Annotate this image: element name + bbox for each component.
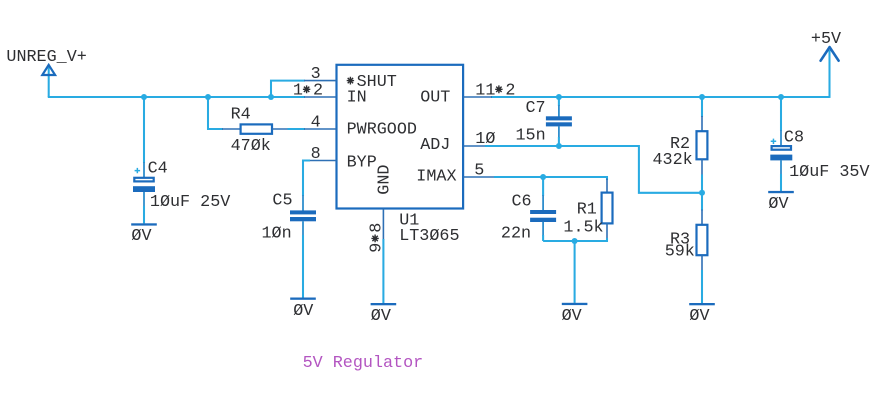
wire U1 GND to ground	[382, 239, 384, 303]
svg-text:+5V: +5V	[811, 30, 841, 49]
pin 11*2 OUT stub	[463, 82, 515, 101]
svg-text:ØV: ØV	[562, 307, 582, 326]
wire ADJ run	[485, 146, 702, 193]
capacitor C6	[501, 177, 556, 243]
svg-text:ØV: ØV	[131, 227, 151, 246]
capacitor C5	[262, 192, 317, 244]
node SHDN tie	[268, 94, 274, 100]
wire IMAX run	[494, 177, 607, 193]
wire SHDN loop	[271, 81, 305, 97]
svg-text:2: 2	[505, 82, 515, 101]
pin 4 PWRGOOD stub	[304, 113, 337, 132]
pin 10 ADJ stub	[463, 130, 495, 149]
power symbol +5V	[811, 30, 841, 61]
pin 3 SHUT stub	[304, 65, 337, 84]
resistor R4	[231, 106, 272, 157]
node C8 top	[778, 94, 784, 100]
svg-text:UNREG_V+: UNREG_V+	[6, 48, 86, 67]
title 5V Regulator	[303, 354, 424, 373]
pin 9*8 GND stub	[368, 209, 387, 253]
capacitor C8	[770, 129, 869, 182]
wire main top rail	[48, 65, 305, 97]
svg-text:GND: GND	[375, 165, 394, 195]
svg-text:OUT: OUT	[420, 88, 450, 107]
pin 8 BYP stub	[309, 145, 337, 164]
node IMAX C6 tap	[540, 174, 546, 180]
wire R2 bottom lead	[701, 159, 703, 193]
svg-text:R4: R4	[231, 106, 251, 125]
svg-text:C7: C7	[526, 99, 546, 118]
wire C8 top lead	[780, 97, 782, 146]
U1 reference label	[399, 212, 459, 246]
wire R4 drop	[208, 97, 241, 129]
pin 1*2 IN stub	[293, 82, 337, 101]
resistor R3	[665, 225, 708, 262]
resistor R2	[653, 131, 708, 170]
svg-text:1ØuF 35V: 1ØuF 35V	[789, 163, 869, 182]
svg-text:15n: 15n	[516, 126, 546, 145]
wire C4 to ground	[143, 192, 145, 223]
node R4 top	[205, 94, 211, 100]
node R2 top	[699, 94, 705, 100]
svg-text:ØV: ØV	[293, 302, 313, 321]
svg-text:R1: R1	[577, 200, 597, 219]
svg-text:2: 2	[313, 82, 323, 101]
svg-text:C4: C4	[148, 160, 168, 179]
wire C5 to ground	[302, 221, 304, 297]
wire C4 drop	[143, 97, 145, 177]
svg-text:ADJ: ADJ	[420, 136, 450, 155]
ground C5 0V	[290, 298, 316, 322]
svg-text:432k: 432k	[653, 151, 693, 170]
ground C6 0V	[562, 303, 588, 326]
svg-text:1: 1	[293, 82, 303, 101]
wire R3 to ground	[701, 255, 703, 304]
svg-text:IN: IN	[347, 88, 367, 107]
resistor R1	[563, 193, 612, 238]
ground U1 0V	[371, 303, 397, 326]
svg-text:ØV: ØV	[689, 307, 709, 326]
svg-text:1ØuF 25V: 1ØuF 25V	[150, 193, 230, 212]
svg-text:C5: C5	[272, 192, 292, 211]
svg-text:5V Regulator: 5V Regulator	[303, 354, 424, 373]
op-amp U1 body	[337, 65, 464, 209]
capacitor C4	[133, 160, 230, 212]
node C7 top	[556, 94, 562, 100]
wire to C6 ground	[574, 241, 576, 303]
svg-text:PWRGOOD: PWRGOOD	[347, 120, 417, 139]
pin 5 IMAX stub	[463, 161, 495, 180]
svg-text:11: 11	[475, 82, 495, 101]
wire R3 top lead	[701, 193, 703, 226]
svg-text:5: 5	[474, 161, 484, 180]
net label UNREG_V+	[6, 48, 86, 75]
wire BYP to C5	[303, 161, 310, 211]
svg-text:1.5k: 1.5k	[563, 218, 603, 237]
svg-text:59k: 59k	[665, 243, 695, 262]
svg-text:C8: C8	[784, 129, 804, 148]
node C7 bottom on ADJ	[556, 143, 562, 149]
svg-text:ØV: ØV	[768, 195, 788, 214]
svg-text:4: 4	[311, 113, 321, 132]
wire R1 bottom to C6 bottom	[543, 223, 607, 241]
capacitor C7	[516, 97, 572, 146]
svg-text:22n: 22n	[501, 224, 531, 243]
wire +5V riser	[828, 50, 830, 98]
svg-text:IMAX: IMAX	[416, 168, 456, 187]
wire R4 to pin4	[272, 128, 305, 130]
svg-text:C6: C6	[512, 192, 532, 211]
U1 pin names	[347, 73, 457, 195]
svg-text:8: 8	[368, 223, 387, 233]
ground C8 0V	[768, 191, 794, 214]
svg-text:BYP: BYP	[347, 153, 377, 172]
node bottom gnd tap	[572, 238, 578, 244]
svg-text:1Øn: 1Øn	[262, 225, 292, 244]
wire C8 to ground	[780, 160, 782, 191]
wire OUT rail to +5V	[491, 96, 830, 98]
wire R2 top lead	[701, 97, 703, 132]
svg-text:47Øk: 47Øk	[231, 137, 271, 156]
svg-text:8: 8	[311, 145, 321, 164]
ground C4 0V	[131, 223, 157, 246]
svg-text:ØV: ØV	[371, 307, 391, 326]
svg-text:LT3Ø65: LT3Ø65	[399, 227, 459, 246]
node C4 top	[141, 94, 147, 100]
ground R3 0V	[689, 303, 715, 326]
node R2 R3 junction	[699, 190, 705, 196]
